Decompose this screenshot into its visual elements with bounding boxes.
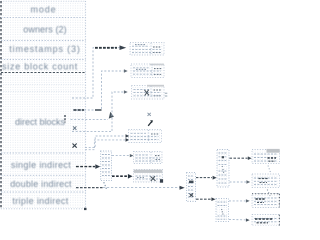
wire Na to R2 <box>230 181 247 183</box>
pointer block Na <box>217 150 229 188</box>
wire Nb to R3 <box>229 200 246 202</box>
data box G1 with gray header <box>134 170 164 183</box>
svg-text:timestamps (3): timestamps (3) <box>9 44 80 54</box>
faint texture line in direct blocks cell <box>1 84 86 86</box>
data box R4 <box>252 215 280 227</box>
inode table bottom border <box>1 208 86 210</box>
inode table right border <box>85 1 87 209</box>
continuation dots between R1 R2 <box>268 166 270 172</box>
wire A1 direct block to data D1 <box>72 48 121 98</box>
pointer block Nb <box>216 199 229 222</box>
svg-text:single indirect: single indirect <box>11 160 71 170</box>
arrowhead A3 <box>109 112 114 119</box>
dots mark x in cell (dark) <box>73 144 77 148</box>
data box D2 <box>131 64 164 78</box>
data box R2 <box>252 174 280 188</box>
svg-text:double indirect: double indirect <box>10 179 72 189</box>
wire Na to R1 (dark) <box>230 157 248 159</box>
row separator mode/owners <box>1 17 86 19</box>
R2 mid-dark content <box>259 178 269 180</box>
pointer block P2 <box>187 173 196 202</box>
wire P2 to Nb (dark) <box>196 198 211 200</box>
P2 dark x mark <box>189 193 193 197</box>
inode table fill <box>1 1 86 209</box>
arrowhead into D5 <box>130 154 134 157</box>
continuation dots between R2 R3 <box>268 190 270 196</box>
G1 dark corner blob <box>160 179 163 183</box>
dots below P1 <box>104 183 106 188</box>
data box R3 <box>252 194 280 208</box>
continuation dark arrow NE <box>148 122 151 126</box>
row separator timestamps/size <box>1 59 86 61</box>
inode table left border (dark dashed) <box>0 1 2 209</box>
svg-text:owners (2): owners (2) <box>23 24 67 34</box>
svg-text:size block count: size block count <box>2 61 78 71</box>
wire A2 dark start <box>74 109 85 111</box>
row separator direct blocks/single indirect <box>1 152 86 154</box>
continuation dots x mark <box>148 113 151 116</box>
single indirect arrow (dark) <box>76 166 95 168</box>
wire P1 to G1 (dark thick) <box>112 175 128 177</box>
wire P2 to Na (dark) <box>196 177 212 179</box>
svg-text:direct blocks: direct blocks <box>15 117 66 127</box>
data box R1 with gray corner <box>252 149 280 164</box>
svg-text:mode: mode <box>30 4 56 14</box>
dark tick in direct blocks cell <box>64 115 66 123</box>
row separator double/triple indirect <box>1 191 86 193</box>
data box D3 <box>132 85 168 99</box>
table bottom-right corner dot <box>84 208 87 210</box>
wire P1 to D5 <box>112 155 130 157</box>
wire to D4 lower <box>85 140 125 150</box>
double indirect wire dark start <box>76 187 104 189</box>
row separator size/direct blocks (dark) <box>1 72 86 74</box>
dots mark x in cell (mid) <box>73 126 76 130</box>
wire A1 dark overdraw <box>95 47 117 49</box>
Na continuation dots <box>222 167 223 173</box>
data box D1 <box>130 43 164 56</box>
wire Nb to R4 <box>229 218 246 221</box>
Nb continuation dots <box>222 210 223 215</box>
data box D5 <box>134 152 163 164</box>
wire A2 dark segment near riser <box>95 109 102 111</box>
arrowheads into D4 <box>126 134 130 137</box>
svg-text:triple indirect: triple indirect <box>12 196 68 206</box>
row separator owners/timestamps <box>1 40 86 42</box>
arrowhead into D2 <box>124 69 128 72</box>
R1 dark content <box>268 157 277 159</box>
small marks right of D3 <box>165 92 168 94</box>
wire A2 direct block to data D2 <box>73 71 124 110</box>
arrowhead into D3 <box>124 90 128 93</box>
Na dark dot <box>222 156 224 158</box>
R4 dark content <box>255 218 274 220</box>
inode table top border <box>1 0 86 2</box>
wire to D4 upper <box>85 136 125 148</box>
data box D4 <box>129 130 162 143</box>
R3 dark content <box>256 198 266 200</box>
wire A3 short direct block arrow <box>71 119 109 121</box>
row separator single/double indirect <box>1 174 86 176</box>
pointer block P1 <box>101 151 112 181</box>
double indirect wire (long) <box>103 187 180 189</box>
arrowhead into D1 <box>120 45 127 50</box>
wire A4 direct block to data D3 <box>72 92 124 132</box>
P2 dark row mark <box>189 181 194 184</box>
